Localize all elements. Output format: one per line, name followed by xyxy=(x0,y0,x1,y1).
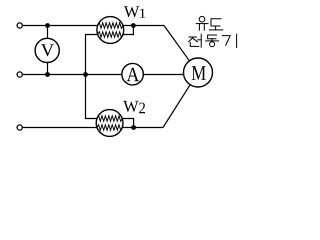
junction dot: potential bus tap on middle line xyxy=(83,72,88,77)
wattmeter W2 xyxy=(96,110,133,137)
junction dot: voltmeter tap on middle line xyxy=(45,72,50,77)
motor M xyxy=(184,58,213,87)
voltmeter V xyxy=(35,38,59,62)
junction dot: voltmeter tap on top line xyxy=(45,23,50,28)
wire top line: W1 to bend xyxy=(123,25,164,27)
wire voltmeter top lead xyxy=(47,26,49,39)
wire middle line: terminal to ammeter xyxy=(23,74,122,76)
label induction motor line 1 (Korean: yudo) xyxy=(196,16,223,30)
terminal input line 1 xyxy=(17,23,22,28)
terminal input line 2 xyxy=(17,72,22,77)
junction dot: W2 potential tap on bottom line xyxy=(131,125,136,130)
junction dot: W1 potential tap on top line xyxy=(131,23,136,28)
label W1 subscript 1 xyxy=(140,9,145,18)
wire voltmeter bottom lead xyxy=(47,62,49,74)
wire ammeter to motor xyxy=(143,74,183,76)
label W1 xyxy=(124,6,139,17)
ammeter A xyxy=(122,63,144,85)
wire top line: terminal to wattmeter W1 xyxy=(23,25,98,27)
wire potential-coil vertical bus xyxy=(86,35,98,119)
wire bottom line: terminal to wattmeter W2 xyxy=(23,127,97,129)
wire bottom diagonal to motor xyxy=(163,85,190,128)
label W2 xyxy=(123,101,138,112)
label induction motor line 2 (Korean: jeondonggi) xyxy=(189,34,237,47)
wattmeter W1 xyxy=(97,17,133,44)
wire bottom line: W2 to bend xyxy=(122,127,163,129)
wire top diagonal to motor xyxy=(164,26,189,61)
terminal input line 3 xyxy=(17,125,22,130)
label W2 subscript 2 xyxy=(139,103,145,114)
